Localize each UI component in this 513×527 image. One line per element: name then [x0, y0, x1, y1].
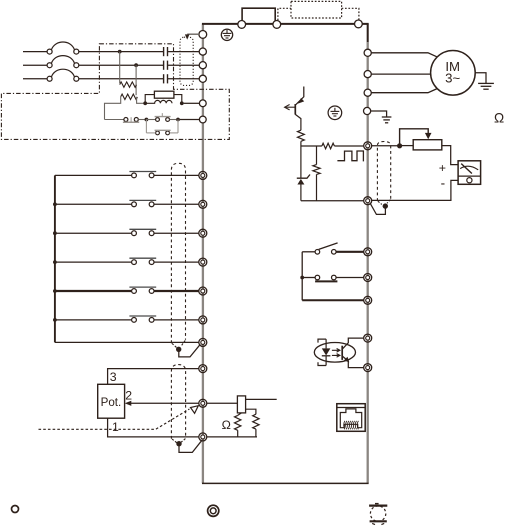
Q1 base arrowhead [285, 105, 290, 110]
MC aux wire b [170, 132, 179, 134]
DI row 6 wire left [55, 319, 131, 321]
shield ground dot (AFM) [383, 203, 388, 208]
OFF button bar below [123, 121, 139, 123]
shield arrow dash f [387, 200, 391, 204]
meter lower circle [467, 178, 472, 183]
terminal MI5 [199, 287, 207, 295]
opto LED cathode wire [325, 356, 327, 366]
pot pin2 wire [130, 402, 199, 404]
phase L1 lead-in wire [23, 51, 47, 53]
svg-text:-: - [441, 175, 446, 190]
resistor R3 zigzag (vertical) [298, 130, 305, 141]
switch MI5 contact b [149, 289, 154, 294]
opto transistor bar [341, 346, 343, 360]
motor ground [478, 83, 494, 89]
switch MI4 contact b [149, 260, 154, 265]
AVI wire to internal [246, 398, 277, 400]
E ground symbol [382, 117, 392, 123]
phase L2 wire to filter [79, 64, 163, 66]
shield ground blade (digital) [179, 344, 201, 357]
DI row 3 wire left [55, 232, 131, 234]
RJ45 pins [344, 421, 359, 429]
MC aux contact a [156, 131, 160, 135]
wire U to motor [371, 53, 437, 57]
terminal +10V [199, 365, 207, 373]
arrow onto ext pot [425, 133, 432, 139]
terminal RC [364, 296, 372, 304]
varistor RV1 zigzag [120, 82, 137, 87]
meter divider [458, 175, 481, 177]
relay bus [301, 252, 303, 300]
choke inductor humps [147, 100, 172, 103]
phase L3 wire to filter [79, 78, 163, 80]
terminal DCM (digital common) [199, 338, 207, 346]
terminal RA [364, 248, 372, 256]
svg-text:Ω: Ω [494, 110, 504, 125]
external potentiometer box [413, 140, 442, 150]
terminal R/S/T 1 [199, 48, 206, 55]
DCM/COM wire [55, 341, 199, 343]
shield arrow dash c [172, 439, 177, 443]
wire R3 to AFM node [300, 141, 302, 146]
ground terminal top-left [199, 31, 207, 39]
terminal AVI [199, 399, 207, 407]
zener D1 bar [297, 175, 310, 179]
legend shielded symbol bottom bar [370, 520, 387, 522]
opto emitter arrow [344, 357, 349, 363]
node relay bus [300, 276, 304, 280]
terminal +1/DC choke [199, 100, 206, 107]
varistor drop wire 1 [119, 52, 121, 84]
pot pin2 arrow into box [125, 401, 132, 406]
DI row 5 wire right [154, 290, 198, 292]
capacitor C2 plates [163, 61, 165, 70]
ACM wire into block [207, 436, 257, 438]
node on phase 2 [134, 63, 138, 67]
breaker pole 1 left contact [47, 49, 52, 54]
switch MI1 contact b [149, 173, 154, 178]
shield arrow dash a [172, 343, 177, 347]
MC aux wire a [146, 132, 155, 134]
legend tick a [375, 503, 379, 505]
opto LED anode wire [325, 339, 327, 348]
switch MI1 contact a [132, 173, 137, 178]
terminal W [364, 89, 371, 96]
dashed wiper line [39, 409, 190, 429]
switch MI2 contact a [132, 202, 137, 207]
inverter main block right edge [367, 23, 369, 483]
legend shielded symbol dashed circle [370, 506, 385, 521]
opto top bracket [318, 339, 326, 343]
open arrow to AVI [191, 406, 199, 414]
wire varistor right drop [137, 97, 144, 104]
terminal MI2 [199, 200, 207, 208]
terminal MCM [364, 197, 372, 205]
terminal - (top, B2) [355, 20, 363, 28]
switch MI6 contact a [132, 318, 137, 323]
inrush resistor box [154, 91, 174, 98]
resistor R5 zigzag (vertical) [313, 165, 320, 175]
terminal +2 (top) [273, 21, 281, 29]
OFF button stem [130, 117, 132, 122]
optocoupler ellipse [314, 343, 355, 363]
motor IM circle [431, 51, 476, 96]
DI row 2 wire left [55, 203, 131, 205]
meter needle [461, 164, 472, 174]
wire resistor to right node [174, 95, 182, 104]
svg-text:Ω: Ω [222, 418, 231, 432]
breaker pole 3 left contact [47, 76, 52, 81]
switch MI5 bar [129, 286, 156, 288]
AVI divider R1 drop [237, 430, 239, 437]
breaker pole 1 arc [51, 42, 74, 50]
RJ45 top line [337, 407, 365, 409]
transistor Q1 bar [294, 104, 296, 115]
opto bottom bracket [318, 362, 326, 365]
zener to rail [300, 185, 302, 201]
digital input bus [54, 175, 56, 342]
shield ground dot (digital) [176, 347, 181, 352]
svg-text:1: 1 [112, 420, 119, 434]
switch MI3 contact a [132, 231, 137, 236]
switch MI4 contact a [132, 260, 137, 265]
MC aux branch left wire [145, 120, 147, 133]
DI row 3 wire right [154, 232, 198, 234]
braking resistor dashed box [291, 1, 342, 18]
switch MI2 contact b [149, 202, 154, 207]
inverter main block left edge [202, 23, 204, 483]
PE symbol near top [221, 29, 232, 40]
opto arrow 2 [332, 354, 340, 358]
wire to OFF button [105, 119, 124, 121]
shield ground blade (AFM) [370, 203, 386, 215]
phase L1 wire to filter [79, 51, 163, 53]
DI row 1 wire right [154, 174, 198, 176]
resistor R4 zigzag (AFM) [322, 143, 335, 149]
relay RB wire right [336, 277, 364, 279]
AFM external wire [372, 145, 400, 147]
DI row 4 wire left [55, 261, 131, 263]
DI row 1 wire left [55, 174, 131, 176]
legend shielded symbol top bar [369, 505, 387, 507]
node bus row 2 [53, 202, 57, 206]
R5 to rail [316, 174, 318, 200]
AVI wire into block [207, 402, 237, 404]
MCM rail [301, 200, 364, 202]
relay RB wire left [302, 277, 315, 279]
wire W to motor [371, 88, 437, 92]
relay RA contact b [332, 250, 337, 255]
terminal MI4 [199, 258, 207, 266]
pulse waveform symbol [337, 151, 363, 161]
dotted rounded shield box [180, 37, 193, 85]
relay RA wire right [336, 251, 364, 253]
wire pot to meter + [442, 146, 458, 165]
meter box [458, 161, 481, 185]
inverter main block top edge [202, 23, 369, 25]
inverter main block bottom edge [202, 482, 369, 484]
AVI series resistor box [237, 396, 245, 413]
opto collector [342, 338, 364, 349]
opto LED triangle [322, 348, 331, 355]
terminal U [364, 49, 371, 56]
phase L3 lead-in wire [23, 78, 47, 80]
AVI divider resistor R2 zigzag [253, 414, 259, 429]
shield arrow dash b [181, 340, 185, 346]
ON button contact b [166, 118, 170, 122]
terminal V [364, 71, 371, 78]
switch MI5 contact a [132, 289, 137, 294]
breaker pole 3 right contact [74, 76, 79, 81]
node bus row 5 [53, 289, 57, 293]
node bus row 6 [53, 318, 57, 322]
terminal +1 (top) [238, 21, 246, 29]
MC aux contact b [166, 131, 170, 135]
terminal +2 [199, 116, 206, 123]
varistor drop wire 2 [135, 65, 137, 95]
MO1 collector arrow [298, 98, 304, 104]
AVI divider resistor R1 zigzag [235, 415, 241, 430]
svg-text:2: 2 [125, 389, 132, 403]
zener wire [300, 146, 302, 178]
breaker pole 2 right contact [74, 63, 79, 68]
capacitor C3 plates [163, 74, 165, 83]
relay RB contact b [332, 275, 337, 280]
terminal R/S/T 2 [199, 62, 206, 69]
DI row 5 wire left [55, 290, 131, 292]
node choke right [180, 101, 184, 105]
dash-dot option outline (filter+contactor) [1, 44, 229, 140]
DI row 4 wire right [154, 261, 198, 263]
dashed connector brake resistor right [342, 8, 359, 20]
AVI divider resistor R1 link [238, 413, 242, 416]
switch MI6 bar [129, 315, 156, 317]
legend tick c [381, 523, 384, 524]
jumper bracket between +1/+2 terminals [242, 8, 275, 21]
breaker pole 2 left contact [47, 63, 52, 68]
PE symbol mid [328, 106, 342, 120]
zener D1 triangle [297, 179, 304, 185]
switch MI4 bar [129, 257, 156, 259]
terminal RB [364, 274, 372, 282]
meter needle arc [460, 166, 478, 170]
relay RA wire left [302, 251, 315, 253]
wire OFF to node [138, 119, 144, 121]
node bus row 3 [53, 231, 57, 235]
varistor RV2 zigzag [121, 94, 138, 99]
relay RB bar [315, 280, 337, 282]
node MC left [145, 118, 149, 122]
switch MI1 bar [129, 171, 156, 173]
motor ground wire [475, 73, 486, 84]
MO1 collector stub [296, 87, 304, 105]
Q1 base lead [285, 106, 295, 108]
relay RB contact a [315, 275, 320, 280]
svg-text:+: + [439, 161, 446, 175]
shield ground dot (analog) [176, 441, 181, 446]
terminal ACM [199, 433, 207, 441]
potentiometer box [98, 384, 125, 418]
svg-text:Pot.: Pot. [101, 396, 122, 409]
wire node to pot [400, 145, 414, 147]
wire MC to terminal [180, 119, 200, 121]
MC aux branch right wire [177, 120, 179, 133]
wire varistor left drop [105, 97, 121, 120]
opto LED bar [322, 355, 331, 357]
shield arrow dash e [378, 201, 382, 204]
legend tick b [372, 523, 375, 524]
wire from ground terminal [187, 33, 199, 35]
terminal R/S/T 3 [199, 75, 206, 82]
breaker pole 3 arc [51, 69, 74, 77]
svg-text:3: 3 [110, 370, 117, 384]
shield cable dashed pair (digital) [171, 163, 185, 343]
phase L2 lead-in wire [23, 64, 47, 66]
relay RC wire [302, 299, 363, 301]
terminal E (ground) [364, 107, 371, 114]
resistor R5 hang wire [316, 146, 318, 165]
wire up to resistor [145, 95, 154, 104]
node choke left [143, 101, 147, 105]
breaker pole 2 arc [51, 56, 74, 64]
AFM internal wire [301, 145, 322, 147]
opto emitter [342, 356, 364, 368]
legend small circle [12, 506, 19, 513]
AVI divider R2 drop [255, 429, 257, 437]
legend double circle [208, 505, 219, 516]
RJ45 outer box [337, 404, 365, 432]
shield cable dashed pair (analog) [171, 365, 185, 439]
AVI wire to divider [246, 409, 256, 414]
node bus row 4 [53, 260, 57, 264]
svg-text:3~: 3~ [445, 71, 460, 86]
ON button stem [161, 113, 163, 117]
arrow onto shield box [185, 34, 190, 39]
relay RA blade [319, 243, 338, 250]
terminal MCM2 [364, 364, 372, 372]
MC aux bar [155, 129, 171, 131]
phase L2 wire to terminal [168, 64, 200, 66]
terminal MO1 [364, 334, 372, 342]
wire node to ON button [146, 119, 155, 121]
RJ45 jack profile [340, 409, 361, 428]
DI row 2 wire right [154, 203, 198, 205]
wire V to motor [371, 73, 430, 75]
OFF button contact b [134, 118, 138, 122]
node on phase 1 [118, 50, 122, 54]
phase L3 wire to terminal [168, 78, 200, 80]
wire top-right corner stub [367, 24, 369, 42]
pot pin3 wire [108, 369, 199, 385]
wire ON to node right [170, 119, 177, 121]
terminal MI1 [199, 171, 207, 179]
ON button contact a [156, 118, 160, 122]
wire choke to terminal [184, 102, 200, 104]
switch MI6 contact b [149, 318, 154, 323]
breaker pole 1 right contact [74, 49, 79, 54]
ON button bar above [155, 116, 171, 118]
shield dashed pair (AFM) [377, 142, 390, 202]
DI row 6 wire right [154, 319, 198, 321]
phase L1 wire to terminal [168, 51, 200, 53]
wire meter - to MCM rail [372, 180, 459, 200]
shield ground blade (analog) [179, 440, 202, 452]
wire up over pot [400, 129, 429, 146]
dashed connector brake resistor left [278, 8, 291, 20]
shield arrow dash d [181, 439, 185, 443]
capacitor C1 plates [163, 47, 165, 56]
node MC right [176, 118, 180, 122]
wire R4 to AFM terminal [334, 145, 363, 147]
switch MI2 bar [129, 199, 156, 201]
wire E to ground [371, 111, 387, 117]
terminal MI3 [199, 229, 207, 237]
switch MI3 bar [129, 228, 156, 230]
terminal MI6 [199, 316, 207, 324]
Q1 emitter wire [295, 114, 301, 130]
switch MI3 contact b [149, 231, 154, 236]
relay RA contact a [315, 250, 320, 255]
OFF button contact a [124, 118, 128, 122]
node AFM ext [397, 143, 402, 148]
opto arrow 1 [332, 349, 340, 353]
terminal AFM [364, 142, 372, 150]
pot pin1 wire [108, 418, 199, 437]
